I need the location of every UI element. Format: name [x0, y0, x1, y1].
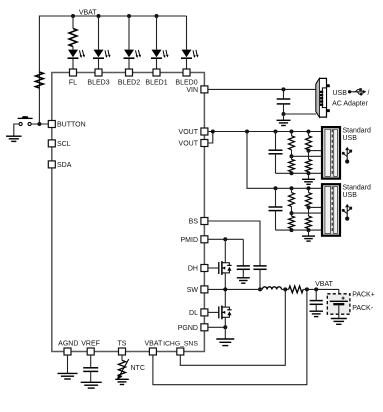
svg-text:BLED1: BLED1: [145, 79, 167, 86]
wire VOUT2 link: [208, 132, 213, 144]
svg-text:AC Adapter: AC Adapter: [332, 100, 368, 107]
svg-text:AGND: AGND: [58, 340, 78, 347]
ground (VBAT cap): [309, 311, 323, 316]
wire DL gate lead: [208, 311, 218, 313]
wire BUTTON to node: [31, 123, 48, 125]
capacitor (USB1 VBUS): [269, 132, 283, 174]
icon USB logo (horizontal): [348, 88, 366, 95]
svg-text:BUTTON: BUTTON: [57, 121, 86, 128]
node PMID junction: [223, 237, 227, 241]
node USB2 cap tap: [274, 186, 278, 190]
pin VOUT (1): [179, 128, 208, 136]
svg-text:PACK-: PACK-: [352, 305, 374, 312]
svg-text:DH: DH: [188, 266, 198, 273]
pin BLED2: [118, 69, 140, 86]
battery cell BT1: [330, 297, 348, 305]
pin BLED0: [175, 69, 197, 86]
resistor R2 (FL series): [69, 29, 77, 47]
svg-text:USB: USB: [343, 135, 358, 142]
svg-text:ICHG_SNS: ICHG_SNS: [163, 340, 198, 347]
node VBAT output: [314, 287, 318, 291]
pin BUTTON: [48, 121, 85, 129]
ground (AGND): [58, 373, 78, 379]
resistor (USB1 D+ lower): [306, 151, 312, 174]
pin VREF: [81, 340, 100, 355]
node USB2 divider taps: [290, 186, 311, 190]
LED D2 BLED3: [93, 50, 111, 59]
svg-text:PACK+: PACK+: [352, 292, 375, 299]
svg-text:VBAT: VBAT: [315, 281, 333, 288]
LED D3 BLED2: [124, 50, 142, 59]
ground (USB1): [302, 173, 315, 184]
connector J1 USB/AC plug: [316, 78, 330, 117]
capacitor C4 (VBAT out): [310, 289, 323, 311]
wire USB2 return bus: [276, 229, 323, 231]
connector J2 Standard USB receptacle: [322, 127, 340, 179]
node VIN cap junction: [282, 87, 286, 91]
connector J4 battery pack: [327, 294, 350, 314]
wire USB1 D+ to port: [309, 150, 323, 152]
label NTC: [131, 365, 145, 372]
wire SW node: [208, 288, 262, 290]
node bootstrap-SW: [258, 287, 262, 291]
node USB2 D+ mid: [307, 205, 311, 209]
svg-text:BS: BS: [189, 219, 199, 226]
LED D1 FL: [68, 50, 86, 59]
wire VOUT bus: [208, 131, 322, 133]
svg-text:SW: SW: [187, 287, 199, 294]
connector J3 Standard USB receptacle: [322, 184, 340, 236]
node SW junctions: [223, 287, 227, 291]
wire USB2 D+ to port: [309, 206, 323, 208]
svg-text:USB: USB: [343, 192, 358, 199]
label Standard USB (J3): [343, 185, 372, 199]
resistor (USB2 D+ lower): [306, 207, 312, 230]
wire switch to ground: [14, 124, 19, 136]
resistor (USB1 D+ upper): [306, 132, 312, 151]
node VOUT tie: [211, 130, 215, 134]
ground (TS): [115, 379, 129, 384]
pin TS: [118, 340, 127, 355]
node USB2 D- mid: [290, 211, 294, 215]
capacitor C2 bootstrap: [253, 266, 266, 290]
svg-text:VOUT: VOUT: [179, 141, 199, 148]
transistor Q2 low-side NMOS: [219, 289, 232, 327]
pin SW: [187, 286, 208, 294]
wire USB2 D- to port: [292, 212, 323, 214]
pin DL: [189, 309, 208, 317]
svg-text:DL: DL: [189, 310, 198, 317]
label USB / AC Adapter: [332, 90, 369, 107]
VBAT net label (right): [315, 281, 333, 288]
node BUTTON junction: [37, 122, 41, 126]
wire BLED1 branch: [156, 16, 158, 69]
wire PMID: [208, 238, 243, 240]
ground (VIN cap): [277, 114, 291, 126]
pin VIN: [186, 86, 208, 94]
svg-text:TS: TS: [118, 340, 127, 347]
ground (button): [6, 136, 21, 141]
junction dots on VBAT rail: [71, 14, 159, 18]
wire USB2 feed: [247, 132, 322, 189]
pin VBAT (bottom): [145, 340, 163, 355]
wire DH gate lead: [208, 267, 218, 269]
wire BLED0 branch: [186, 16, 188, 69]
wire BS to bootstrap: [208, 221, 260, 266]
svg-text:BLED2: BLED2: [118, 79, 140, 86]
ground (VREF): [81, 382, 102, 388]
capacitor (USB2 VBUS): [269, 188, 283, 230]
capacitor C3 (PMID): [237, 239, 250, 277]
resistor R1 (button pull-up): [35, 72, 43, 88]
capacitor C1 (VIN): [277, 89, 291, 114]
capacitor C5 (VREF): [83, 355, 98, 382]
wire adapter return: [284, 113, 317, 115]
svg-text:SCL: SCL: [57, 141, 71, 148]
wire ICHG_SNS sense: [180, 289, 285, 365]
pin BLED3: [87, 69, 109, 86]
ground (USB2): [302, 230, 315, 241]
LED D5 BLED0: [181, 50, 199, 59]
svg-text:VIN: VIN: [186, 87, 198, 94]
svg-text:BLED0: BLED0: [175, 79, 197, 86]
VBAT net label (top): [79, 10, 97, 17]
node USB1 return junctions: [290, 171, 311, 175]
wire VBAT sense: [153, 289, 307, 384]
pin PMID: [181, 236, 208, 244]
pin BLED1: [145, 69, 167, 86]
wire VIN to adapter: [208, 88, 316, 90]
pin SDA: [48, 161, 71, 169]
node USB1 cap tap: [274, 130, 278, 134]
svg-text:VOUT: VOUT: [179, 129, 199, 136]
node VBAT sense right: [305, 287, 309, 291]
svg-text:PMID: PMID: [181, 237, 199, 244]
wire USB1 return bus: [276, 172, 323, 174]
svg-text:VREF: VREF: [81, 340, 100, 347]
ground (PMID cap): [237, 278, 250, 283]
pin ICHG_SNS: [163, 340, 198, 355]
svg-text:FL: FL: [69, 79, 77, 86]
node USB2 return junctions: [290, 228, 311, 232]
resistor (USB1 D- lower): [289, 156, 295, 173]
node USB1 D- mid: [290, 154, 294, 158]
resistor (USB2 D- upper): [289, 188, 295, 213]
resistor (USB1 D- upper): [289, 132, 295, 157]
resistor R3 current sense: [289, 286, 304, 293]
svg-text:/: /: [368, 90, 370, 97]
svg-text:BLED3: BLED3: [87, 79, 109, 86]
thermistor RT1 NTC: [117, 355, 128, 380]
pushbutton switch S1: [18, 116, 33, 126]
icon USB trident (J2): [342, 147, 352, 164]
svg-text:PGND: PGND: [178, 325, 198, 332]
wire USB1 D- to port: [292, 155, 323, 157]
wire BLED2 branch: [128, 16, 130, 69]
node USB2 feed tap: [245, 130, 249, 134]
wire PGND: [208, 326, 225, 328]
node USB1 D+ mid: [307, 149, 311, 153]
wire AGND: [67, 355, 69, 373]
pin AGND: [58, 340, 78, 355]
wire battery to ground: [338, 304, 340, 318]
pin VOUT (2): [179, 140, 208, 148]
ground (PGND): [216, 327, 234, 345]
wire BLED3 branch: [98, 16, 100, 69]
wire VBAT top rail: [39, 16, 186, 124]
label PACK+: [352, 292, 375, 299]
wire L1 to sense: [282, 288, 289, 290]
pin BS: [189, 218, 208, 226]
transistor Q1 high-side NMOS: [219, 239, 232, 289]
wire to battery pack: [338, 289, 340, 301]
pin SCL: [48, 140, 70, 148]
svg-text:SDA: SDA: [57, 162, 72, 169]
svg-text:Standard: Standard: [343, 128, 372, 135]
wire sense to VBAT node: [303, 288, 339, 290]
pin DH: [188, 265, 208, 273]
svg-text:NTC: NTC: [131, 365, 145, 372]
icon USB trident (J3): [342, 204, 352, 221]
inductor L1: [262, 287, 281, 290]
node USB1 divider taps: [290, 130, 311, 134]
label PACK-: [352, 305, 374, 312]
svg-text:VBAT: VBAT: [145, 340, 163, 347]
resistor (USB2 D+ upper): [306, 188, 312, 207]
resistor (USB2 D- lower): [289, 213, 295, 230]
node C1 bottom junction: [282, 112, 286, 116]
LED D4 BLED1: [151, 50, 169, 59]
label Standard USB (J2): [343, 128, 372, 142]
ground (battery): [331, 319, 347, 325]
node ICHG_SNS left: [283, 287, 287, 291]
IC U1 body: [52, 73, 205, 352]
svg-text:USB: USB: [333, 90, 348, 97]
pin FL: [69, 69, 77, 86]
pin PGND: [178, 324, 208, 332]
wire FL branch: [72, 16, 74, 69]
node PGND junction: [223, 325, 227, 329]
svg-text:Standard: Standard: [343, 185, 372, 192]
